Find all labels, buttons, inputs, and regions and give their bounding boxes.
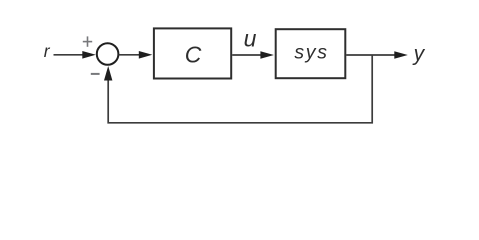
svg-text:C: C xyxy=(185,42,202,68)
svg-text:y: y xyxy=(412,42,426,65)
svg-text:u: u xyxy=(244,25,257,51)
svg-text:r: r xyxy=(44,41,51,61)
svg-text:sys: sys xyxy=(294,42,328,64)
